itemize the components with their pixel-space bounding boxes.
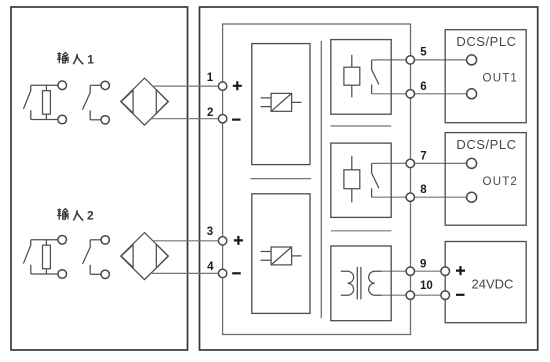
svg-text:2: 2 xyxy=(207,107,213,119)
input 1 dry contact switch xyxy=(83,81,110,124)
switch blade xyxy=(23,240,30,274)
wire terminal 7 to DCS out2 xyxy=(372,162,467,164)
glyph 输 xyxy=(57,52,68,63)
terminal 7 xyxy=(406,159,414,167)
svg-text:4: 4 xyxy=(207,261,214,273)
plus sign terminal 3 xyxy=(234,236,243,245)
label 输入1 xyxy=(57,52,94,66)
switch blade xyxy=(23,85,30,119)
terminal 10 xyxy=(406,291,414,299)
terminal circle bottom xyxy=(101,116,109,124)
isolation barrier line xyxy=(320,41,322,318)
terminal 5 xyxy=(406,56,414,64)
minus sign terminal 4 xyxy=(232,272,241,274)
terminal circle bottom xyxy=(101,270,109,278)
relay coil K2 xyxy=(344,156,360,203)
transformer T1 xyxy=(341,267,382,300)
svg-text:DCS/PLC: DCS/PLC xyxy=(456,34,516,49)
wire sensor2 to terminal 3 xyxy=(153,240,223,242)
svg-text:OUT1: OUT1 xyxy=(483,73,518,85)
isolation amplifier symbol 1 xyxy=(261,93,302,111)
resistor xyxy=(45,85,47,119)
svg-text:9: 9 xyxy=(420,258,426,270)
wire terminal 8 to DCS out2 xyxy=(372,196,467,198)
svg-text:24VDC: 24VDC xyxy=(472,276,514,291)
svg-text:3: 3 xyxy=(207,226,213,238)
wire bottom xyxy=(90,273,101,275)
terminal 4 xyxy=(218,269,226,277)
wire bottom xyxy=(31,273,58,275)
control-side enclosure box xyxy=(200,7,538,350)
wire sensor2 to terminal 4 xyxy=(151,272,223,274)
svg-text:6: 6 xyxy=(420,81,426,93)
NAMUR proximity sensor input 2 xyxy=(121,233,169,280)
switch blade xyxy=(83,240,91,274)
terminal 3 xyxy=(218,237,226,245)
DCS out2 terminal a xyxy=(467,158,477,168)
field-side enclosure box xyxy=(11,7,188,350)
isolation amplifier block 2 xyxy=(252,194,310,314)
DCS/PLC OUT1 box xyxy=(445,30,526,123)
terminal circle bottom xyxy=(58,115,67,124)
plus sign 24VDC xyxy=(456,266,465,275)
input 2 dry contact switch xyxy=(83,236,110,279)
terminal 9 xyxy=(406,267,414,275)
DCS out1 terminal a xyxy=(467,55,477,65)
separator below relay block 2 xyxy=(331,230,392,232)
relay contact K2 xyxy=(372,163,379,197)
glyph 输 xyxy=(57,209,68,220)
DCS/PLC OUT2 box xyxy=(445,133,526,226)
terminal 6 xyxy=(406,90,414,98)
DCS out2 terminal b xyxy=(467,192,477,202)
24VDC minus terminal xyxy=(441,291,450,300)
wire bottom xyxy=(31,119,58,121)
wire bottom xyxy=(90,119,101,121)
svg-text:7: 7 xyxy=(420,150,426,162)
minus sign 24VDC xyxy=(456,294,465,296)
relay contact K1 xyxy=(372,60,379,94)
input 1 contact with line-fault resistor xyxy=(23,81,66,124)
power transformer block xyxy=(331,246,391,321)
terminal circle bottom xyxy=(58,270,67,279)
wire terminal 5 to DCS out1 xyxy=(372,59,467,61)
svg-text:5: 5 xyxy=(420,47,427,59)
glyph 入 xyxy=(73,54,83,64)
label 输入2 xyxy=(57,209,94,223)
separator between amplifier blocks xyxy=(250,178,311,180)
input 2 contact with line-fault resistor xyxy=(23,236,66,279)
wire top xyxy=(31,84,58,86)
svg-text:2: 2 xyxy=(87,209,94,223)
24VDC supply box xyxy=(445,242,526,323)
minus sign terminal 2 xyxy=(232,118,240,120)
relay block 2 xyxy=(331,143,391,217)
isolation amplifier block 1 xyxy=(252,44,310,165)
DCS out1 terminal b xyxy=(467,89,477,99)
primary winding xyxy=(341,271,354,295)
terminal circle top xyxy=(101,81,109,89)
core xyxy=(357,267,361,300)
24VDC plus terminal xyxy=(441,267,450,276)
wire top xyxy=(90,239,101,241)
wire sensor1 to terminal 1 xyxy=(153,85,223,87)
svg-text:OUT2: OUT2 xyxy=(483,176,518,188)
plus sign terminal 1 xyxy=(233,81,242,90)
terminal 1 xyxy=(218,82,226,90)
terminal circle top xyxy=(101,236,109,244)
relay coil K1 xyxy=(344,55,360,98)
wire terminal 9 to 24VDC plus xyxy=(382,270,442,272)
switch blade xyxy=(83,85,91,120)
wire top xyxy=(90,84,101,86)
terminal circle top xyxy=(58,236,67,245)
wire top xyxy=(31,239,58,241)
svg-text:1: 1 xyxy=(87,52,94,66)
terminal 8 xyxy=(406,193,414,201)
terminal circle top xyxy=(58,81,67,90)
separator between relay blocks xyxy=(331,125,392,127)
wire terminal 10 to 24VDC minus xyxy=(382,294,442,296)
relay block 1 xyxy=(331,40,391,115)
wire terminal 6 to DCS out1 xyxy=(372,93,467,95)
NAMUR proximity sensor input 1 xyxy=(121,78,169,125)
svg-text:DCS/PLC: DCS/PLC xyxy=(456,137,516,152)
svg-text:1: 1 xyxy=(207,72,214,84)
isolation amplifier symbol 2 xyxy=(261,247,302,265)
terminal 2 xyxy=(218,115,226,123)
secondary winding xyxy=(369,271,382,295)
glyph 入 xyxy=(73,210,83,220)
resistor xyxy=(45,240,47,274)
wire sensor1 to terminal 2 xyxy=(151,118,223,120)
isolator unit box xyxy=(223,24,411,335)
svg-text:10: 10 xyxy=(420,280,433,292)
svg-text:8: 8 xyxy=(420,184,427,196)
